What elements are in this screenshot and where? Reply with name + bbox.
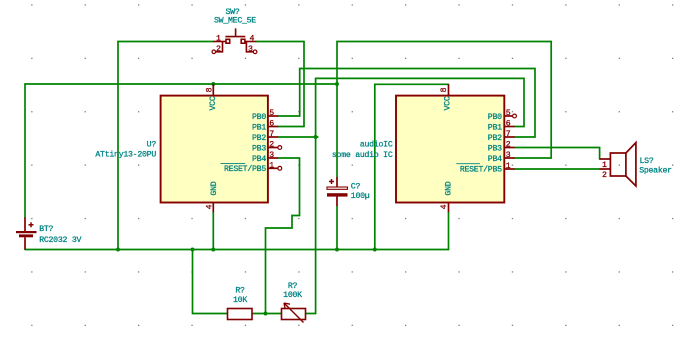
svg-text:BT?: BT? bbox=[39, 225, 53, 234]
U2 pin names bbox=[443, 96, 502, 195]
wire U1 PB2 to junction bbox=[278, 136, 318, 138]
svg-text:6: 6 bbox=[506, 120, 511, 129]
resistor R? 10K bbox=[228, 309, 253, 320]
svg-text:4: 4 bbox=[440, 204, 449, 209]
svg-text:1: 1 bbox=[506, 162, 511, 171]
pin 6 PB1 U1 bbox=[268, 126, 278, 128]
pin 1 RESET U2 bbox=[504, 168, 514, 170]
node gnd switch bbox=[116, 248, 120, 252]
resistor R? 100K bbox=[282, 309, 306, 320]
svg-text:2: 2 bbox=[506, 141, 511, 150]
node gnd R feed bbox=[191, 248, 195, 252]
wire cap bottom bbox=[336, 206, 338, 250]
svg-text:VCC: VCC bbox=[443, 96, 452, 110]
wire U2 RESET to speaker pin2 bbox=[515, 168, 600, 170]
svg-text:100µ: 100µ bbox=[351, 192, 370, 201]
pin 3 PB4 U2 bbox=[504, 157, 514, 159]
svg-text:6: 6 bbox=[269, 120, 274, 129]
pin 2 PB3 U1 bbox=[268, 147, 278, 149]
svg-text:4: 4 bbox=[206, 204, 215, 209]
node gnd U1 bbox=[211, 248, 215, 252]
svg-text:PB2: PB2 bbox=[252, 134, 266, 143]
pin 7 PB2 U2 bbox=[504, 136, 514, 138]
unconnected pin 2 bbox=[278, 146, 282, 150]
wire R1 right lead bbox=[306, 313, 316, 315]
pin 5 PB0 U2 bbox=[504, 115, 512, 117]
switch pin 3 hook bbox=[246, 42, 253, 52]
speaker pin 1 bbox=[600, 158, 611, 160]
svg-text:U?: U? bbox=[147, 140, 157, 149]
svg-text:PB1: PB1 bbox=[252, 123, 266, 132]
svg-text:ATtiny13-20PU: ATtiny13-20PU bbox=[95, 150, 156, 160]
op-amp U? body bbox=[161, 96, 268, 203]
svg-text:PB2: PB2 bbox=[488, 134, 502, 143]
pin 7 PB2 U1 bbox=[268, 136, 278, 138]
wire left vertical to ground rail bbox=[117, 42, 119, 250]
wire U1 PB4 staircase to R junction bbox=[266, 158, 300, 314]
svg-text:RESET/PB5: RESET/PB5 bbox=[460, 165, 502, 175]
wire ground rail bbox=[25, 249, 449, 251]
svg-text:C?: C? bbox=[351, 182, 361, 191]
svg-text:5: 5 bbox=[506, 109, 511, 118]
wire VCC rail bbox=[25, 83, 337, 85]
svg-text:3: 3 bbox=[269, 151, 274, 160]
svg-text:GND: GND bbox=[210, 181, 219, 195]
pin 1 RESET U1 bbox=[268, 167, 278, 169]
wire R1 feed bbox=[193, 250, 228, 314]
svg-text:RESET/PB5: RESET/PB5 bbox=[224, 164, 266, 174]
battery plates bbox=[16, 231, 37, 233]
wire PB1 stub link bbox=[278, 126, 304, 128]
pin 6 PB1 U2 bbox=[504, 126, 514, 128]
speaker pin 2 bbox=[600, 168, 611, 170]
svg-text:1: 1 bbox=[269, 162, 274, 171]
svg-text:PB4: PB4 bbox=[488, 155, 502, 164]
pin 5 PB0 U1 bbox=[268, 115, 278, 117]
svg-text:2: 2 bbox=[602, 171, 607, 180]
op-amp audioIC body bbox=[396, 96, 504, 203]
svg-text:8: 8 bbox=[206, 87, 215, 92]
pin 2 PB3 U2 bbox=[504, 147, 514, 149]
wire A: U1 PB0 to U2 PB2 bbox=[278, 69, 535, 138]
svg-text:1: 1 bbox=[216, 34, 221, 43]
wire U2 VCC branch bbox=[375, 84, 449, 249]
svg-text:2: 2 bbox=[216, 45, 221, 54]
svg-text:RC2032 3V: RC2032 3V bbox=[39, 236, 81, 245]
node gnd U2 branch bbox=[373, 248, 377, 252]
svg-text:100K: 100K bbox=[283, 291, 302, 300]
wire left rail down to battery bbox=[24, 84, 26, 217]
svg-text:10K: 10K bbox=[233, 296, 247, 305]
wire B vertical bbox=[315, 78, 317, 313]
svg-text:PB1: PB1 bbox=[488, 123, 502, 132]
svg-text:some audio IC: some audio IC bbox=[332, 150, 393, 160]
wire U2 GND down bbox=[448, 212, 450, 249]
battery plus bbox=[29, 222, 34, 227]
svg-text:PB3: PB3 bbox=[252, 144, 266, 153]
svg-text:3: 3 bbox=[506, 151, 511, 160]
svg-text:PB0: PB0 bbox=[252, 113, 266, 122]
pin 3 PB4 U1 bbox=[268, 157, 278, 159]
unconnected pin 1 bbox=[278, 166, 282, 170]
pin 4 GND U1 bbox=[212, 203, 214, 213]
pin 8 VCC U2 bbox=[448, 84, 450, 95]
svg-text:PB3: PB3 bbox=[488, 144, 502, 153]
pin 8 VCC U1 bbox=[212, 84, 214, 96]
svg-text:R?: R? bbox=[235, 287, 245, 296]
wire top right: VCC node to U2 PB4 bbox=[337, 42, 551, 159]
node VCC cap bbox=[335, 82, 339, 86]
svg-text:SW_MEC_5E: SW_MEC_5E bbox=[214, 17, 256, 26]
svg-text:LS?: LS? bbox=[640, 157, 654, 166]
svg-text:R?: R? bbox=[288, 282, 298, 291]
svg-text:audioIC: audioIC bbox=[360, 139, 393, 149]
svg-text:SW?: SW? bbox=[226, 8, 240, 17]
wire B: top run to U2 PB1 bbox=[316, 78, 524, 126]
node VCC U1 bbox=[211, 82, 215, 86]
svg-text:3: 3 bbox=[248, 45, 253, 54]
node R0 R1 bbox=[264, 312, 268, 316]
pin 4 GND U2 bbox=[448, 203, 450, 213]
svg-text:5: 5 bbox=[269, 109, 274, 118]
svg-text:8: 8 bbox=[440, 87, 449, 92]
node U1 PB2 junction bbox=[314, 135, 318, 139]
svg-text:PB0: PB0 bbox=[488, 113, 502, 122]
svg-text:GND: GND bbox=[445, 181, 454, 195]
wire down to U1 PB1 bbox=[303, 42, 305, 127]
speaker LS? body bbox=[610, 153, 626, 176]
svg-text:4: 4 bbox=[250, 34, 255, 43]
wire cap top bbox=[336, 84, 338, 177]
svg-text:1: 1 bbox=[602, 161, 607, 170]
U2 pin numbers bbox=[440, 87, 511, 209]
svg-text:Speaker: Speaker bbox=[639, 165, 672, 175]
node gnd cap bbox=[335, 248, 339, 252]
wire switch pin4 right bbox=[256, 41, 304, 43]
U1 pin names bbox=[209, 96, 267, 195]
svg-text:7: 7 bbox=[506, 130, 511, 139]
wire R0-R1 link bbox=[252, 313, 282, 315]
svg-text:7: 7 bbox=[269, 130, 274, 139]
capacitor plus bbox=[329, 179, 334, 184]
capacitor C? leads bbox=[336, 177, 338, 187]
wire U2 PB3 to speaker pin1 bbox=[515, 148, 600, 160]
svg-text:VCC: VCC bbox=[209, 96, 218, 110]
switch pin 2 hook bbox=[216, 42, 223, 52]
wire U1 GND down bbox=[212, 212, 214, 249]
svg-text:2: 2 bbox=[269, 141, 274, 150]
capacitor plates bbox=[327, 187, 348, 189]
U1 pin numbers bbox=[206, 87, 275, 209]
battery BT? leads bbox=[24, 217, 26, 231]
switch SW? body bbox=[213, 41, 226, 43]
svg-text:PB4: PB4 bbox=[252, 155, 266, 164]
wire switch pin1 left bbox=[118, 41, 213, 43]
unconnected pin 5 bbox=[513, 114, 517, 118]
